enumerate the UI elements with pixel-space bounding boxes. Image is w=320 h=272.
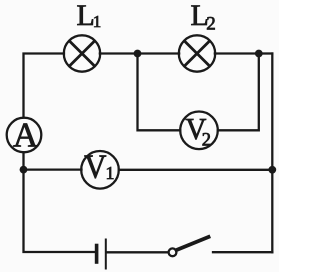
switch S pivot (169, 248, 177, 256)
label L2 (191, 0, 216, 34)
wire top-left corner to lamp L1 (24, 54, 65, 118)
svg-text:V: V (84, 148, 107, 186)
node J2 (255, 50, 263, 58)
voltmeter V2 (180, 112, 218, 150)
svg-text:2: 2 (202, 130, 211, 150)
switch S lever (open) (177, 237, 209, 250)
battery negative plate (short thick) (95, 246, 99, 263)
label V2 (voltmeter) (185, 111, 211, 150)
wire J2 to top-right corner (259, 52, 273, 54)
wire V1 to node J4 (119, 169, 272, 171)
svg-text:A: A (13, 115, 39, 154)
wire J1 down and right to voltmeter V2 (138, 54, 181, 131)
svg-text:1: 1 (106, 163, 115, 183)
label V1 (voltmeter) (84, 148, 114, 186)
lamp L1 (64, 35, 100, 71)
node J1 (134, 50, 142, 58)
wire J3 down to bottom-left corner and to battery (24, 170, 96, 252)
wire J3 to voltmeter V1 (24, 168, 82, 170)
node J4 (268, 166, 276, 174)
voltmeter V1 (81, 151, 119, 189)
wire L1 to node J1 (100, 52, 137, 54)
lamp L2 (179, 35, 215, 71)
svg-text:1: 1 (93, 12, 102, 31)
label L1 (77, 0, 102, 32)
battery positive plate (long thin) (105, 240, 107, 269)
node J3 (20, 166, 28, 174)
wire battery to switch S (107, 251, 169, 253)
wire J1 to lamp L2 (137, 52, 179, 54)
ammeter A (7, 118, 42, 153)
wire L2 to node J2 (215, 52, 259, 54)
wire switch contact to bottom-right corner (213, 251, 272, 253)
wire right edge (top-right corner to bottom-right corner) (271, 54, 273, 253)
wire A to node J3 (22, 152, 24, 169)
wire J2 down and left to voltmeter V2 (218, 54, 259, 131)
svg-text:2: 2 (206, 13, 216, 34)
